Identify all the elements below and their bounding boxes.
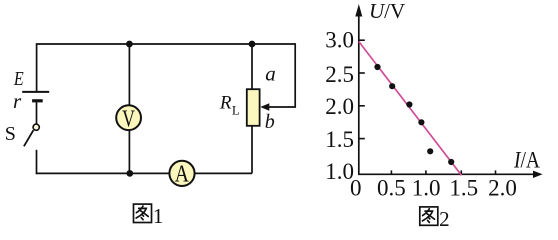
switch S contact bbox=[33, 124, 39, 130]
svg-text:S: S bbox=[5, 123, 16, 145]
svg-text:R: R bbox=[219, 92, 232, 113]
node junction top voltmeter bbox=[126, 41, 133, 48]
wire rheostat branch bottom bbox=[251, 126, 253, 174]
svg-text:a: a bbox=[265, 61, 276, 85]
x labels bbox=[350, 175, 517, 200]
y tick 2.0 bbox=[359, 105, 365, 107]
data point 4 bbox=[418, 119, 424, 125]
wire slider arm bbox=[266, 43, 295, 107]
y-axis U/V bbox=[358, 9, 360, 174]
wire left (battery to top-left corner) bbox=[36, 43, 38, 91]
data point 3 bbox=[406, 101, 412, 107]
fit line bbox=[359, 42, 462, 176]
wire voltmeter branch top bbox=[128, 43, 130, 106]
svg-text:I/A: I/A bbox=[513, 147, 540, 172]
svg-text:1.0: 1.0 bbox=[412, 175, 441, 200]
caption tu1 glyph bbox=[133, 204, 151, 222]
svg-text:b: b bbox=[265, 111, 275, 133]
caption tu2 glyph bbox=[420, 207, 438, 225]
y labels bbox=[325, 28, 354, 185]
svg-text:V: V bbox=[122, 106, 135, 132]
svg-text:1.5: 1.5 bbox=[325, 127, 354, 152]
wire rheostat branch top bbox=[251, 43, 253, 89]
svg-text:0: 0 bbox=[350, 175, 362, 200]
svg-text:2.5: 2.5 bbox=[325, 62, 354, 87]
node junction bottom voltmeter bbox=[126, 170, 133, 177]
y tick 2.5 bbox=[359, 72, 365, 74]
y tick 1.5 bbox=[359, 138, 365, 140]
wire voltmeter branch bottom bbox=[128, 130, 130, 174]
battery r plate short bbox=[32, 99, 43, 102]
x tick 0.5 bbox=[390, 170, 392, 174]
wire battery to switch bbox=[36, 102, 38, 124]
data point 1 bbox=[374, 64, 380, 70]
slider arrowhead bbox=[260, 103, 269, 111]
wire switch to bottom wire bbox=[36, 150, 38, 174]
svg-text:L: L bbox=[232, 102, 240, 117]
x-axis I/A bbox=[358, 173, 535, 175]
ammeter A bbox=[169, 161, 194, 188]
svg-text:2: 2 bbox=[439, 207, 450, 228]
svg-text:U/V: U/V bbox=[369, 0, 405, 23]
data point 5 bbox=[427, 148, 433, 154]
switch S blade bbox=[24, 130, 34, 146]
svg-text:1.5: 1.5 bbox=[449, 175, 478, 200]
wire bottom bbox=[36, 172, 252, 174]
data point 6 bbox=[448, 159, 454, 165]
svg-text:2.0: 2.0 bbox=[488, 175, 517, 200]
svg-text:2.0: 2.0 bbox=[325, 94, 354, 119]
svg-text:0.5: 0.5 bbox=[377, 175, 406, 200]
data point 2 bbox=[389, 83, 395, 89]
x tick 1.0 bbox=[425, 170, 427, 174]
x tick 1.5 bbox=[460, 170, 462, 174]
voltmeter V bbox=[116, 105, 141, 132]
svg-text:E: E bbox=[13, 68, 24, 90]
wire top bbox=[37, 43, 296, 45]
svg-text:r: r bbox=[13, 89, 22, 113]
svg-text:3.0: 3.0 bbox=[325, 28, 354, 53]
rheostat RL body bbox=[247, 89, 260, 126]
y tick 3.0 bbox=[359, 39, 365, 41]
svg-text:1: 1 bbox=[153, 204, 164, 228]
x tick 2.0 bbox=[495, 170, 497, 174]
battery E plate long bbox=[22, 91, 49, 93]
svg-text:A: A bbox=[175, 161, 190, 187]
node junction top rheostat bbox=[249, 41, 256, 48]
